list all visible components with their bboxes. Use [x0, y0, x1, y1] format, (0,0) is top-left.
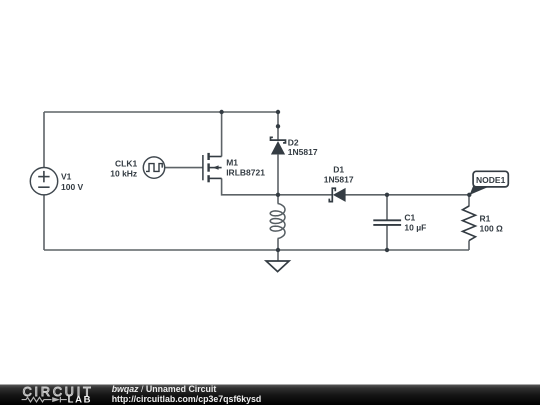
- svg-text:1N5817: 1N5817: [324, 174, 354, 184]
- svg-text:http://circuitlab.com/cp3e7qsf: http://circuitlab.com/cp3e7qsf6kysd: [112, 394, 262, 404]
- svg-text:100 V: 100 V: [61, 182, 84, 192]
- svg-text:IRLB8721: IRLB8721: [226, 168, 265, 178]
- svg-text:1N5817: 1N5817: [288, 147, 318, 157]
- svg-text:bwqaz / Unnamed Circuit: bwqaz / Unnamed Circuit: [112, 384, 217, 394]
- svg-text:V1: V1: [61, 172, 72, 182]
- svg-text:10 µF: 10 µF: [404, 223, 426, 233]
- svg-text:CLK1: CLK1: [115, 158, 137, 168]
- svg-text:100 Ω: 100 Ω: [480, 224, 504, 234]
- svg-text:M1: M1: [226, 157, 238, 167]
- svg-text:LAB: LAB: [68, 395, 93, 405]
- svg-text:C1: C1: [404, 213, 415, 223]
- svg-text:NODE1: NODE1: [476, 175, 506, 185]
- svg-text:D1: D1: [333, 165, 344, 175]
- svg-text:R1: R1: [480, 214, 491, 224]
- svg-text:10 kHz: 10 kHz: [110, 169, 137, 179]
